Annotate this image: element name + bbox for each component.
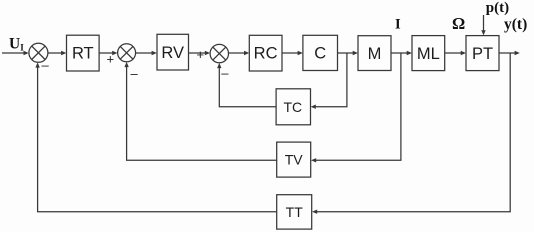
wire p(t) into PT bbox=[481, 15, 485, 35]
label minus S2 bbox=[131, 66, 139, 81]
svg-text:I: I bbox=[395, 17, 401, 33]
label U_I bbox=[9, 35, 24, 52]
svg-text:–: – bbox=[42, 58, 50, 73]
label p(t) bbox=[486, 0, 509, 16]
svg-text:TT: TT bbox=[286, 204, 304, 220]
svg-text:M: M bbox=[368, 45, 382, 63]
svg-text:RC: RC bbox=[254, 45, 278, 63]
wire RC to C bbox=[282, 51, 303, 55]
block TV bbox=[277, 142, 311, 177]
block TT bbox=[277, 195, 312, 229]
block RV bbox=[157, 34, 189, 70]
svg-text:PT: PT bbox=[472, 45, 493, 63]
svg-text:p(t): p(t) bbox=[486, 0, 509, 16]
label minus S3 bbox=[221, 66, 229, 81]
wire C to M bbox=[338, 51, 358, 55]
svg-text:RV: RV bbox=[161, 44, 184, 62]
label Omega bbox=[452, 14, 465, 33]
svg-text:+: + bbox=[107, 52, 115, 67]
wire input bbox=[2, 51, 29, 55]
block PT bbox=[466, 36, 499, 71]
svg-text:ML: ML bbox=[417, 45, 440, 63]
wire S1 to RT bbox=[48, 51, 66, 55]
summing junction S3 bbox=[210, 44, 228, 62]
svg-text:+: + bbox=[197, 47, 205, 62]
wire RT to S2 bbox=[99, 51, 117, 55]
wire S2 to RV bbox=[136, 51, 157, 55]
svg-text:–: – bbox=[221, 66, 229, 81]
svg-text:y(t): y(t) bbox=[504, 16, 527, 33]
wire tap to TT bbox=[312, 53, 510, 214]
wire PT output bbox=[499, 51, 520, 55]
svg-text:C: C bbox=[314, 45, 326, 63]
summing junction S1 bbox=[29, 43, 48, 62]
wire TV to S2 bbox=[124, 62, 276, 160]
svg-text:–: – bbox=[131, 66, 139, 81]
label I bbox=[395, 17, 401, 33]
svg-text:TV: TV bbox=[285, 152, 304, 168]
wire TC to S3 bbox=[217, 63, 276, 107]
wire RV to S3 bbox=[189, 51, 211, 55]
block ML bbox=[412, 36, 445, 71]
svg-text:Ω: Ω bbox=[452, 14, 465, 33]
svg-text:UI: UI bbox=[9, 35, 24, 52]
block M bbox=[358, 36, 391, 71]
label minus S1 bbox=[42, 58, 50, 73]
block RT bbox=[67, 35, 100, 71]
label y(t) bbox=[504, 16, 527, 33]
wire tap to TV bbox=[311, 53, 401, 163]
label plus S3 bbox=[197, 47, 205, 62]
svg-text:RT: RT bbox=[72, 45, 94, 63]
block RC bbox=[249, 35, 282, 71]
summing junction S2 bbox=[118, 44, 136, 62]
block TC bbox=[276, 89, 310, 125]
block C bbox=[303, 35, 338, 70]
wire S3 to RC bbox=[229, 51, 250, 55]
label plus S2 bbox=[107, 52, 115, 67]
svg-text:TC: TC bbox=[283, 99, 302, 115]
wire TT to S1 bbox=[35, 62, 276, 211]
wire tap to TC bbox=[311, 53, 347, 109]
wire ML to PT bbox=[445, 51, 466, 55]
wire M to ML bbox=[391, 51, 412, 55]
